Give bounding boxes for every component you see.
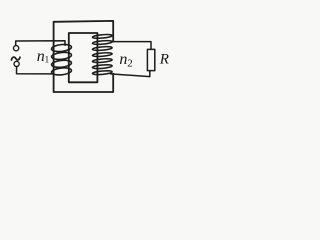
secondary coil n2 turn 5 (92, 58, 112, 63)
transformer core inner window (69, 33, 98, 82)
secondary coil n2 turn 3 (92, 46, 112, 51)
wire resistor R bottom to secondary (111, 71, 150, 77)
primary coil n1 turn 1 (51, 44, 72, 53)
secondary coil n2 turn 6 (92, 64, 112, 69)
secondary coil n2 turn 4 (92, 52, 112, 57)
transformer core outer outline (54, 21, 114, 92)
AC source terminal bottom (14, 61, 19, 66)
svg-text:2: 2 (127, 57, 133, 69)
secondary coil n2 turn 1 (92, 34, 112, 39)
secondary coil n2 turn 7 (92, 70, 112, 75)
wire secondary top to resistor R (112, 42, 151, 50)
AC source tilde symbol (11, 57, 20, 60)
primary coil n1 turn 3 (51, 59, 72, 68)
wire bottom lead from source to core (17, 67, 54, 74)
svg-text:1: 1 (45, 54, 50, 64)
primary coil n1 turn 4 (51, 67, 72, 76)
svg-text:R: R (159, 52, 169, 68)
svg-text:n: n (37, 48, 45, 65)
AC source terminal top (14, 46, 19, 51)
wire top lead from source to primary (16, 41, 65, 46)
secondary coil n2 turn 2 (92, 40, 112, 45)
primary coil n1 turn 2 (51, 51, 72, 60)
resistor R box (147, 49, 154, 70)
svg-text:n: n (119, 51, 127, 68)
